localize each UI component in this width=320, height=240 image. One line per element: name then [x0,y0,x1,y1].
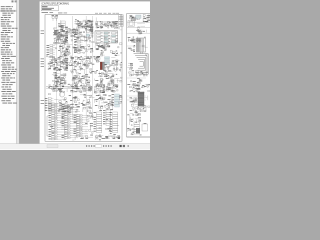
svg-text:CONTROL CIRCUIT DIAGRAM 1: CONTROL CIRCUIT DIAGRAM 1 [41,3,70,6]
